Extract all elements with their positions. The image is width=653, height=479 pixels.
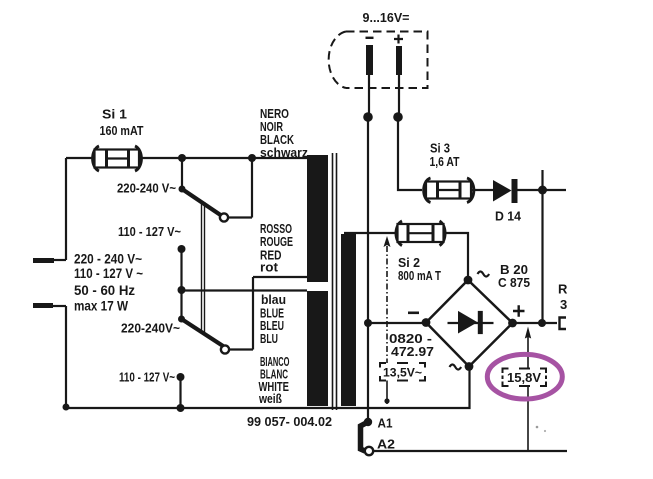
node: A1 terminal xyxy=(364,418,372,426)
node: top wire tap B xyxy=(248,154,256,162)
wire: left border lower segment xyxy=(65,306,67,408)
svg-text:NERO: NERO xyxy=(260,107,289,121)
node: bottom left corner dot xyxy=(63,404,70,411)
wire: riser rosso to switch2 xyxy=(252,277,254,350)
svg-text:15,8V: 15,8V xyxy=(507,371,542,385)
svg-text:D 14: D 14 xyxy=(495,209,522,224)
wire: tap1 down to blau line xyxy=(180,249,182,290)
label plus pin xyxy=(394,35,403,44)
wire: blau line to transformer xyxy=(182,289,308,291)
node: D14 output junction xyxy=(538,186,547,195)
node: top wire tap A xyxy=(178,154,186,162)
fuse Si3 xyxy=(424,178,474,203)
wire: plus pin down xyxy=(398,75,400,117)
value box 13,5V~ xyxy=(380,363,425,381)
label minus bridge xyxy=(408,312,419,315)
svg-text:rot: rot xyxy=(260,261,279,275)
speckle marks xyxy=(536,426,539,429)
svg-text:BLU: BLU xyxy=(260,332,278,346)
node: bridge right vertex xyxy=(508,319,517,328)
connector pin minus xyxy=(366,45,373,75)
svg-text:A2: A2 xyxy=(377,438,395,452)
wire: down to switch2 pivot xyxy=(180,290,182,317)
label plus bridge xyxy=(513,305,525,317)
svg-text:R: R xyxy=(558,282,568,297)
gang link of switches xyxy=(202,202,205,332)
svg-text:A1: A1 xyxy=(378,417,393,431)
wire: bridge right to R3x xyxy=(513,322,558,324)
node: minus rail junction xyxy=(364,319,372,327)
svg-text:3: 3 xyxy=(560,297,567,312)
transformer T1 primary winding lower xyxy=(307,291,328,406)
wire: bottom mains to bridge corner xyxy=(66,366,470,408)
node: tap1 terminal dot xyxy=(178,245,186,253)
svg-text:BLEU: BLEU xyxy=(260,319,284,333)
wire: mains top from left border to transformer xyxy=(66,157,307,159)
node: plus wire dot xyxy=(393,112,403,122)
transformer T1 primary winding upper xyxy=(307,155,328,282)
label blau wire colours xyxy=(260,293,286,346)
node: tap2 terminal dot xyxy=(177,373,185,381)
wire: Si3 to diode xyxy=(471,189,493,191)
measurement 15,8V arrow xyxy=(525,327,531,452)
switch S1 blade (220-240V position) xyxy=(182,189,222,216)
svg-text:weiß: weiß xyxy=(258,392,282,406)
node: blau junction xyxy=(178,286,186,294)
svg-text:220-240 V~: 220-240 V~ xyxy=(117,181,176,196)
highlight ellipse xyxy=(487,354,562,399)
terminal A2 circle xyxy=(365,447,373,455)
switch S2 pivot xyxy=(178,316,185,323)
svg-text:NOIR: NOIR xyxy=(260,120,283,134)
wire: A2 line to right xyxy=(373,450,567,452)
mains terminal stub upper xyxy=(33,258,66,263)
svg-text:Si 1: Si 1 xyxy=(102,107,127,122)
svg-text:50 - 60 Hz: 50 - 60 Hz xyxy=(74,283,135,298)
connector pin plus xyxy=(396,46,402,75)
measurement 13,5V~ arrow xyxy=(384,236,391,404)
wire: plus rail down and over to Si3 xyxy=(398,117,422,190)
svg-text:BLACK: BLACK xyxy=(260,133,294,147)
svg-text:160 mAT: 160 mAT xyxy=(100,123,144,138)
connector plug outline (9...16V) xyxy=(329,32,428,89)
wire: diode to right edge xyxy=(517,189,566,191)
svg-text:220 - 240 V~: 220 - 240 V~ xyxy=(74,252,142,267)
node: bridge left vertex xyxy=(422,318,431,327)
transformer secondary winding xyxy=(341,234,356,406)
resistor R3 (clipped at edge) xyxy=(560,318,567,330)
diode D14 xyxy=(493,179,518,203)
svg-text:110 - 127 V~: 110 - 127 V~ xyxy=(118,224,181,239)
svg-text:max 17 W: max 17 W xyxy=(74,299,128,314)
svg-text:13,5V~: 13,5V~ xyxy=(383,366,422,380)
label ROSSO wire colours xyxy=(260,222,293,275)
label NERO wire colours xyxy=(260,107,308,160)
svg-text:110 - 127 V~: 110 - 127 V~ xyxy=(119,370,175,385)
node: bridge top vertex xyxy=(464,276,473,285)
wire: drop to switch1 pivot xyxy=(181,158,183,187)
switch S1 contact circle xyxy=(220,213,228,221)
svg-text:110 - 127 V ~: 110 - 127 V ~ xyxy=(74,266,143,281)
wire: minus pin down xyxy=(368,75,370,117)
mains terminal stub lower xyxy=(33,303,66,308)
label ~ bottom xyxy=(450,365,462,370)
transformer core xyxy=(333,153,337,410)
svg-text:1,6 AT: 1,6 AT xyxy=(430,154,460,169)
label BIANCO wire colours xyxy=(258,355,289,406)
value box 15,8V xyxy=(503,369,547,387)
svg-text:472.97: 472.97 xyxy=(391,344,434,359)
fuse Si1 xyxy=(93,146,142,171)
jumper link A1-A2 xyxy=(361,423,368,452)
svg-text:blau: blau xyxy=(261,293,286,307)
svg-text:9...16V=: 9...16V= xyxy=(363,10,410,25)
node: minus wire dot xyxy=(363,112,373,122)
switch S2 contact circle xyxy=(221,345,229,353)
node: tap2 bottom junction xyxy=(177,404,185,412)
wire: stub up from junction xyxy=(541,170,543,190)
label ~ top xyxy=(478,272,490,277)
switch S1 pivot xyxy=(179,186,186,193)
wire: left border upper segment xyxy=(65,158,67,260)
wire: secondary top to bridge xyxy=(344,233,468,280)
wire: minus rail down to A1 xyxy=(367,117,369,422)
wire: rosso tap to transformer xyxy=(253,276,307,278)
node: bridge bottom vertex xyxy=(465,362,474,371)
switch S2 blade (220-240V position) xyxy=(182,319,224,346)
wire: tap2 down to bottom wire xyxy=(179,377,181,408)
label minus pin xyxy=(366,37,374,39)
svg-text:220-240V~: 220-240V~ xyxy=(121,321,180,336)
wire: switch2 contact to riser xyxy=(229,348,253,350)
svg-text:ROUGE: ROUGE xyxy=(260,235,293,249)
svg-text:800 mA T: 800 mA T xyxy=(398,268,441,283)
bridge rectifier B20 C875 diamond xyxy=(426,280,513,367)
fuse Si2 xyxy=(396,221,445,246)
bridge inner diode xyxy=(448,311,494,334)
wire: junction down to plus rail xyxy=(541,190,543,323)
svg-text:C 875: C 875 xyxy=(498,275,530,290)
wire: minus rail to bridge left xyxy=(368,322,425,324)
node: plus line junction xyxy=(538,319,546,327)
svg-text:schwarz: schwarz xyxy=(260,146,308,160)
svg-text:ROSSO: ROSSO xyxy=(260,222,292,236)
svg-text:99 057- 004.02: 99 057- 004.02 xyxy=(247,414,332,429)
label mains ratings block xyxy=(74,252,143,314)
wire: switch1 contact to riser xyxy=(228,158,252,218)
